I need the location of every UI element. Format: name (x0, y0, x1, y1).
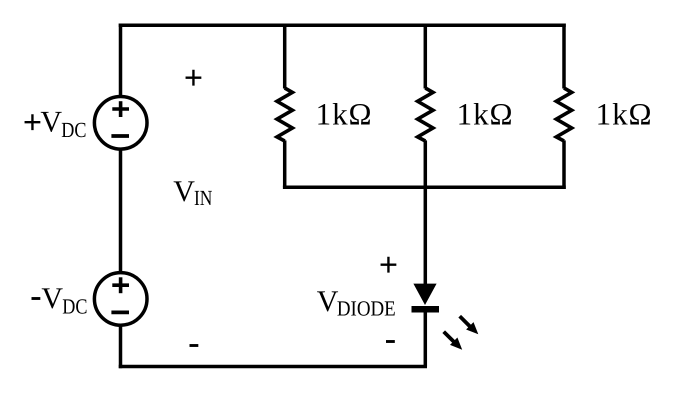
svg-text:+: + (184, 60, 203, 97)
wire R1 top lead (283, 25, 287, 88)
svg-text:+: + (379, 247, 398, 284)
svg-text:V: V (317, 285, 339, 318)
resistor R2 zigzag (418, 88, 433, 141)
svg-text:DC: DC (61, 118, 86, 142)
svg-text:V: V (40, 106, 62, 139)
wire R2 bottom lead / diode anode wire (424, 140, 428, 286)
svg-text:DC: DC (62, 295, 87, 319)
wire R2 top lead (424, 25, 428, 88)
resistor R1 zigzag (277, 88, 292, 141)
svg-text:DIODE: DIODE (337, 296, 396, 320)
svg-text:IN: IN (194, 186, 213, 210)
voltage source +VDC circle (94, 97, 147, 150)
svg-text:-: - (188, 324, 199, 361)
wire left vertical top (119, 24, 123, 97)
resistor R3 zigzag (556, 88, 571, 141)
label VDIODE (317, 285, 396, 320)
wire R3 top lead (562, 24, 566, 89)
label VIN (173, 175, 213, 210)
voltage source -VDC minus symbol (111, 310, 129, 314)
svg-text:1kΩ: 1kΩ (596, 97, 652, 132)
LED arrow 1 (460, 316, 479, 334)
voltage source +VDC minus symbol (111, 134, 129, 138)
wire between sources (119, 150, 123, 273)
voltage source +VDC plus symbol (112, 101, 129, 117)
wire top rail (119, 23, 566, 27)
wire left vertical bottom (119, 326, 123, 369)
wire R3 bottom lead (562, 140, 566, 189)
label -VDC (30, 277, 87, 318)
label +VDC (23, 105, 87, 142)
wire diode cathode to bottom rail (424, 310, 428, 367)
svg-text:1kΩ: 1kΩ (457, 97, 513, 132)
wire bottom rail (119, 365, 427, 369)
svg-text:V: V (173, 175, 195, 208)
svg-text:1kΩ: 1kΩ (316, 97, 372, 132)
svg-text:-: - (30, 277, 41, 314)
wire middle rail (283, 186, 566, 190)
svg-text:-: - (385, 321, 396, 358)
diode D1 cathode bar (412, 306, 440, 313)
diode D1 triangle (anode) (413, 284, 436, 305)
wire R1 bottom lead (283, 140, 287, 187)
voltage source -VDC circle (94, 273, 147, 326)
voltage source -VDC plus symbol (112, 277, 129, 293)
svg-text:+: + (23, 105, 42, 142)
svg-text:V: V (41, 282, 63, 315)
LED arrow 2 (444, 332, 463, 350)
